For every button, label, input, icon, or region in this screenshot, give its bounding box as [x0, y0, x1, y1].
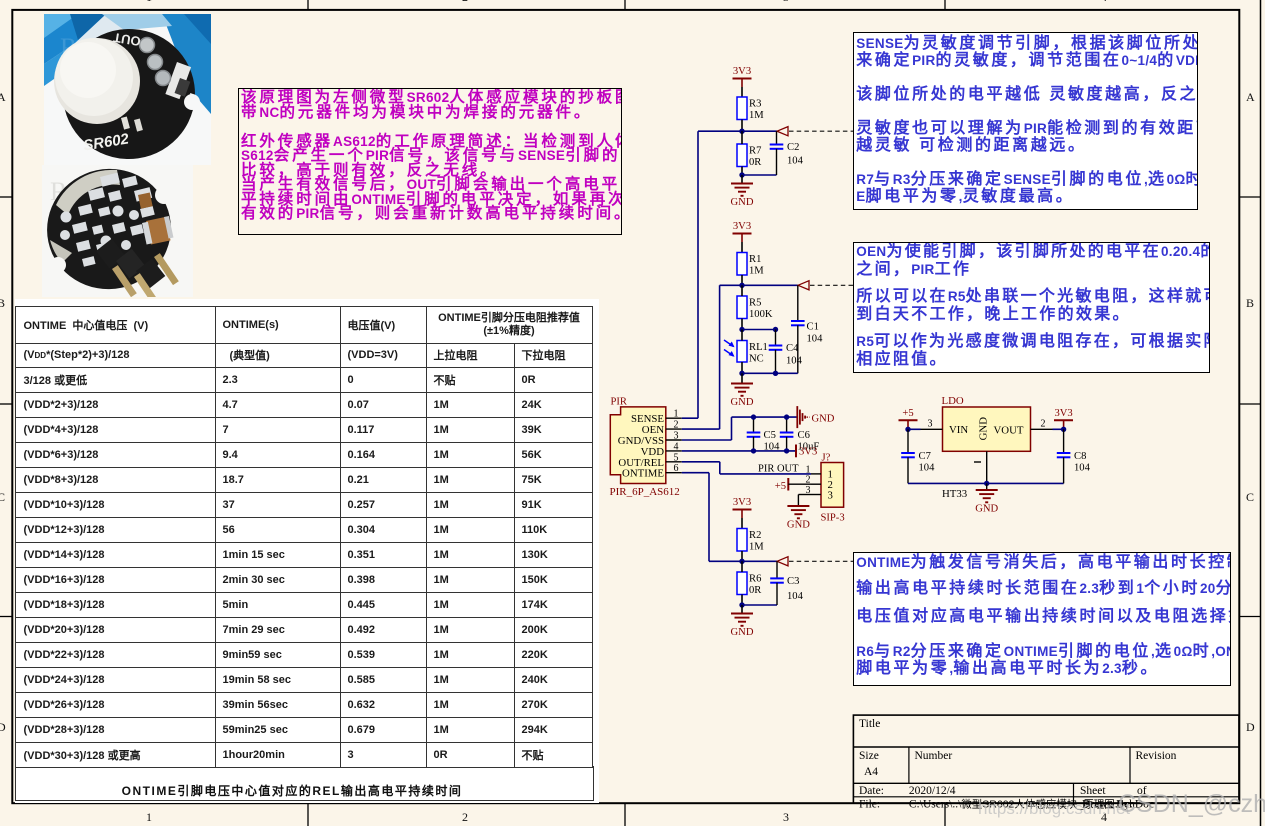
zone number 4 top (clipped)	[1101, 0, 1107, 5]
power port +5 (J? pin2, sideways)	[775, 478, 789, 492]
note box SENSE	[853, 32, 1198, 211]
pin 4 of PIR	[666, 441, 682, 452]
capacitor C2	[770, 142, 804, 167]
capacitor C3	[770, 576, 803, 602]
junction node SENSE	[739, 129, 744, 134]
svg-text:Date:: Date:	[859, 785, 884, 797]
directive triangle SENSE	[777, 127, 788, 136]
capacitor C7	[901, 451, 935, 474]
capacitor C1	[791, 321, 823, 345]
zone tick bottom 3/4	[944, 803, 946, 826]
wire ONTIME vertical	[708, 473, 710, 562]
junction node OEN	[739, 283, 744, 288]
wire OEN net vertical to pin 2	[719, 285, 721, 429]
pin 2 of PIR	[666, 420, 682, 431]
junction node B1	[739, 172, 744, 177]
wire node ONTIME horizontal	[742, 560, 777, 562]
resistor R3	[737, 97, 764, 121]
wire node B1 to C2 bottom	[742, 174, 777, 176]
ground (SENSE divider)	[731, 184, 754, 209]
wire pin2 to OEN net	[682, 428, 720, 430]
capacitor C8	[1057, 451, 1091, 474]
wire C2 top lead	[776, 131, 778, 144]
junction node B3	[739, 602, 744, 607]
pin 1 of J?	[806, 464, 822, 475]
wire pin5 OUT	[682, 461, 720, 463]
zone number 3 top (clipped)	[783, 0, 789, 5]
zone tick right C/D	[1239, 616, 1261, 618]
zone tick left B/C	[0, 403, 12, 405]
resistor R6	[737, 572, 762, 596]
pin 6 of PIR	[666, 463, 682, 474]
resistor R2	[737, 529, 764, 553]
wire node OEN to R5	[741, 285, 743, 296]
table caption	[15, 782, 570, 799]
wire 3V3 to R2	[741, 518, 743, 529]
connector J? SIP-3	[821, 453, 845, 524]
svg-text:Title: Title	[859, 718, 880, 730]
wire PIR OUT net	[720, 473, 811, 475]
svg-text:2020/12/4: 2020/12/4	[909, 785, 956, 797]
wire 3V3 to R3	[741, 87, 743, 97]
wire C8 top lead	[1063, 429, 1065, 453]
wire C5 top lead	[753, 417, 755, 432]
pin 5 of PIR	[666, 452, 682, 463]
wire R7 to node B1	[741, 167, 743, 176]
table outer side borders extension	[15, 766, 594, 801]
zone letter C left	[0, 490, 5, 505]
wire gnd rail C5 C6	[732, 416, 798, 418]
photoresistor RL1	[724, 340, 768, 365]
power port 3V3 (VDD rail, sideways)	[796, 445, 817, 458]
wire J? pin3 down	[797, 495, 799, 507]
dashed directive line SENSE	[789, 130, 853, 132]
wire R1 to node OEN	[741, 275, 743, 285]
photo of SR602 module PCB back	[42, 165, 193, 297]
junction LDO gnd	[984, 481, 989, 486]
junction C4 bottom	[773, 371, 778, 376]
zone tick left C/D	[0, 616, 12, 618]
outer border right line	[1260, 0, 1262, 826]
pin 2 of J?	[806, 475, 822, 486]
wire node OEN horizontal	[720, 284, 798, 286]
power port 3V3 (LDO output)	[1054, 408, 1073, 429]
wire C2 bottom lead	[776, 149, 778, 175]
wire C6 bottom lead	[786, 437, 788, 451]
zone number 1 bottom	[146, 810, 152, 825]
wire C4 top lead	[775, 330, 777, 346]
ONTIME table panel	[15, 299, 599, 803]
note box ONTIME	[853, 552, 1231, 687]
capacitor C5	[747, 430, 780, 453]
zone tick bottom 2/3	[624, 803, 626, 826]
watermark	[978, 799, 1130, 819]
power port 3V3 (ONTIME divider)	[733, 497, 752, 518]
description text box (magenta)	[238, 88, 622, 236]
svg-text:A4: A4	[864, 766, 878, 778]
pin 2 of LDO	[1031, 419, 1053, 430]
zone tick top 1/2	[307, 0, 309, 10]
zone tick right B/C	[1239, 403, 1261, 405]
zone letter B left	[0, 296, 5, 311]
power port +5 (LDO input)	[899, 408, 918, 429]
resistor R5	[737, 296, 773, 320]
zone letter D right	[1246, 720, 1255, 735]
junction node RL	[739, 327, 744, 332]
wire +5 to J? pin2	[788, 483, 811, 485]
junction C6 top	[784, 414, 789, 419]
wire pin6 ONTIME	[682, 472, 709, 474]
ground (LDO)	[975, 490, 998, 515]
wire pin3 up to gnd rail	[731, 417, 733, 440]
zone number 1 top (clipped)	[146, 0, 152, 5]
wire LDO gnd stem	[986, 483, 988, 490]
wire C4 bottom lead	[775, 350, 777, 374]
zone number 2 top (clipped)	[462, 0, 468, 5]
junction C5 bottom	[751, 448, 756, 453]
dashed directive line ONTIME	[789, 560, 853, 562]
junction C5 top	[751, 414, 756, 419]
pin 3 of LDO	[921, 419, 943, 430]
wire C3 top lead	[776, 561, 778, 578]
junction C7 top	[905, 427, 910, 432]
zone letter D left	[0, 720, 6, 735]
wire 3V3 to R1	[741, 242, 743, 253]
note box OEN	[853, 242, 1210, 373]
regulator U? LDO HT33	[942, 395, 1031, 500]
dashed directive line OEN	[810, 284, 853, 286]
svg-text:Number: Number	[915, 750, 953, 762]
wire R5 to node RL	[741, 319, 743, 330]
wire J? pin3 gnd	[798, 494, 811, 496]
wire RL1 to node B2	[741, 362, 743, 373]
wire C7 bottom lead	[907, 457, 909, 483]
junction C4 top	[773, 327, 778, 332]
wire R2 to node ONTIME	[741, 551, 743, 561]
power port 3V3 (OEN divider)	[733, 221, 752, 242]
wire pin5 corner	[719, 462, 721, 474]
wire node RL to C4	[742, 329, 776, 331]
junction node B2	[739, 371, 744, 376]
wire node SENSE to R7	[741, 131, 743, 144]
zone letter B right	[1246, 296, 1254, 311]
wire R6 to node B3	[741, 595, 743, 606]
power port 3V3 (SENSE divider)	[733, 66, 752, 87]
wire SENSE net vertical to pin 1	[697, 131, 699, 418]
wire pin3 GND/VSS	[682, 439, 732, 441]
resistor R7	[737, 144, 762, 168]
wire LDO bottom rail	[908, 482, 1064, 484]
wire ONTIME to node	[709, 560, 742, 562]
wire C6 top lead	[786, 417, 788, 432]
ground (OEN divider)	[731, 384, 754, 409]
wire bottom rail OEN divider	[742, 372, 798, 374]
zone tick top 3/4	[944, 0, 946, 10]
directive triangle ONTIME	[777, 557, 788, 566]
ground (digital, rotated) at C5 C6 rail	[797, 406, 835, 428]
svg-text:Revision: Revision	[1136, 750, 1177, 762]
wire LDO VOUT to 3V3	[1053, 428, 1064, 430]
ground (J? pin3)	[787, 506, 810, 531]
wire node SENSE horizontal	[698, 130, 777, 132]
wire node B1 to ground	[741, 175, 743, 184]
zone number 2 bottom	[462, 810, 468, 825]
capacitor C6	[780, 430, 820, 453]
zone tick left A/B	[0, 196, 12, 198]
wire C8 bottom lead	[1063, 457, 1065, 483]
wire pin4 VDD rail	[682, 450, 796, 452]
resistor R1	[737, 253, 764, 277]
wire node RL to RL1	[741, 330, 743, 341]
zone tick right A/B	[1239, 196, 1261, 198]
ground (ONTIME divider)	[731, 614, 754, 639]
zone number 3 bottom	[783, 810, 789, 825]
directive triangle OEN	[798, 281, 809, 290]
junction C6 bottom	[784, 448, 789, 453]
svg-text:Size: Size	[859, 750, 879, 762]
svg-text:Sheet: Sheet	[1080, 785, 1106, 797]
pin 3 of PIR	[666, 431, 682, 442]
junction node ONTIME	[739, 559, 744, 564]
zone letter C right	[1246, 490, 1254, 505]
zone number 4 bottom	[1101, 810, 1107, 825]
wire C1 bottom lead	[797, 325, 799, 373]
wire R3 to node SENSE	[741, 120, 743, 132]
capacitor C4	[769, 343, 803, 367]
component PIR_6P_AS612 designator PIR	[610, 397, 666, 484]
wire C1 top lead	[797, 285, 799, 321]
pin 1 of PIR	[666, 409, 682, 420]
zone letter A left	[0, 90, 6, 105]
photo of SR602 module front	[44, 14, 211, 165]
pin 3 of J?	[806, 485, 822, 496]
wire C3 bottom lead	[776, 583, 778, 605]
zone tick top 2/3	[624, 0, 626, 10]
wire pin1 to SENSE net	[682, 417, 698, 419]
junction C8 top	[1061, 427, 1066, 432]
svg-text:File:: File:	[859, 799, 880, 811]
wire node B2 to ground	[741, 373, 743, 383]
wire node ONTIME to R6	[741, 561, 743, 572]
wire C5 bottom lead	[753, 437, 755, 451]
wire +5 to LDO VIN	[908, 428, 921, 430]
zone tick bottom 1/2	[307, 803, 309, 826]
zone letter A right	[1246, 90, 1255, 105]
wire node B3 to ground	[741, 605, 743, 614]
wire C7 top lead	[907, 429, 909, 453]
wire node B3 to C3	[742, 604, 777, 606]
pin 1 of LDO (GND)	[974, 451, 987, 483]
